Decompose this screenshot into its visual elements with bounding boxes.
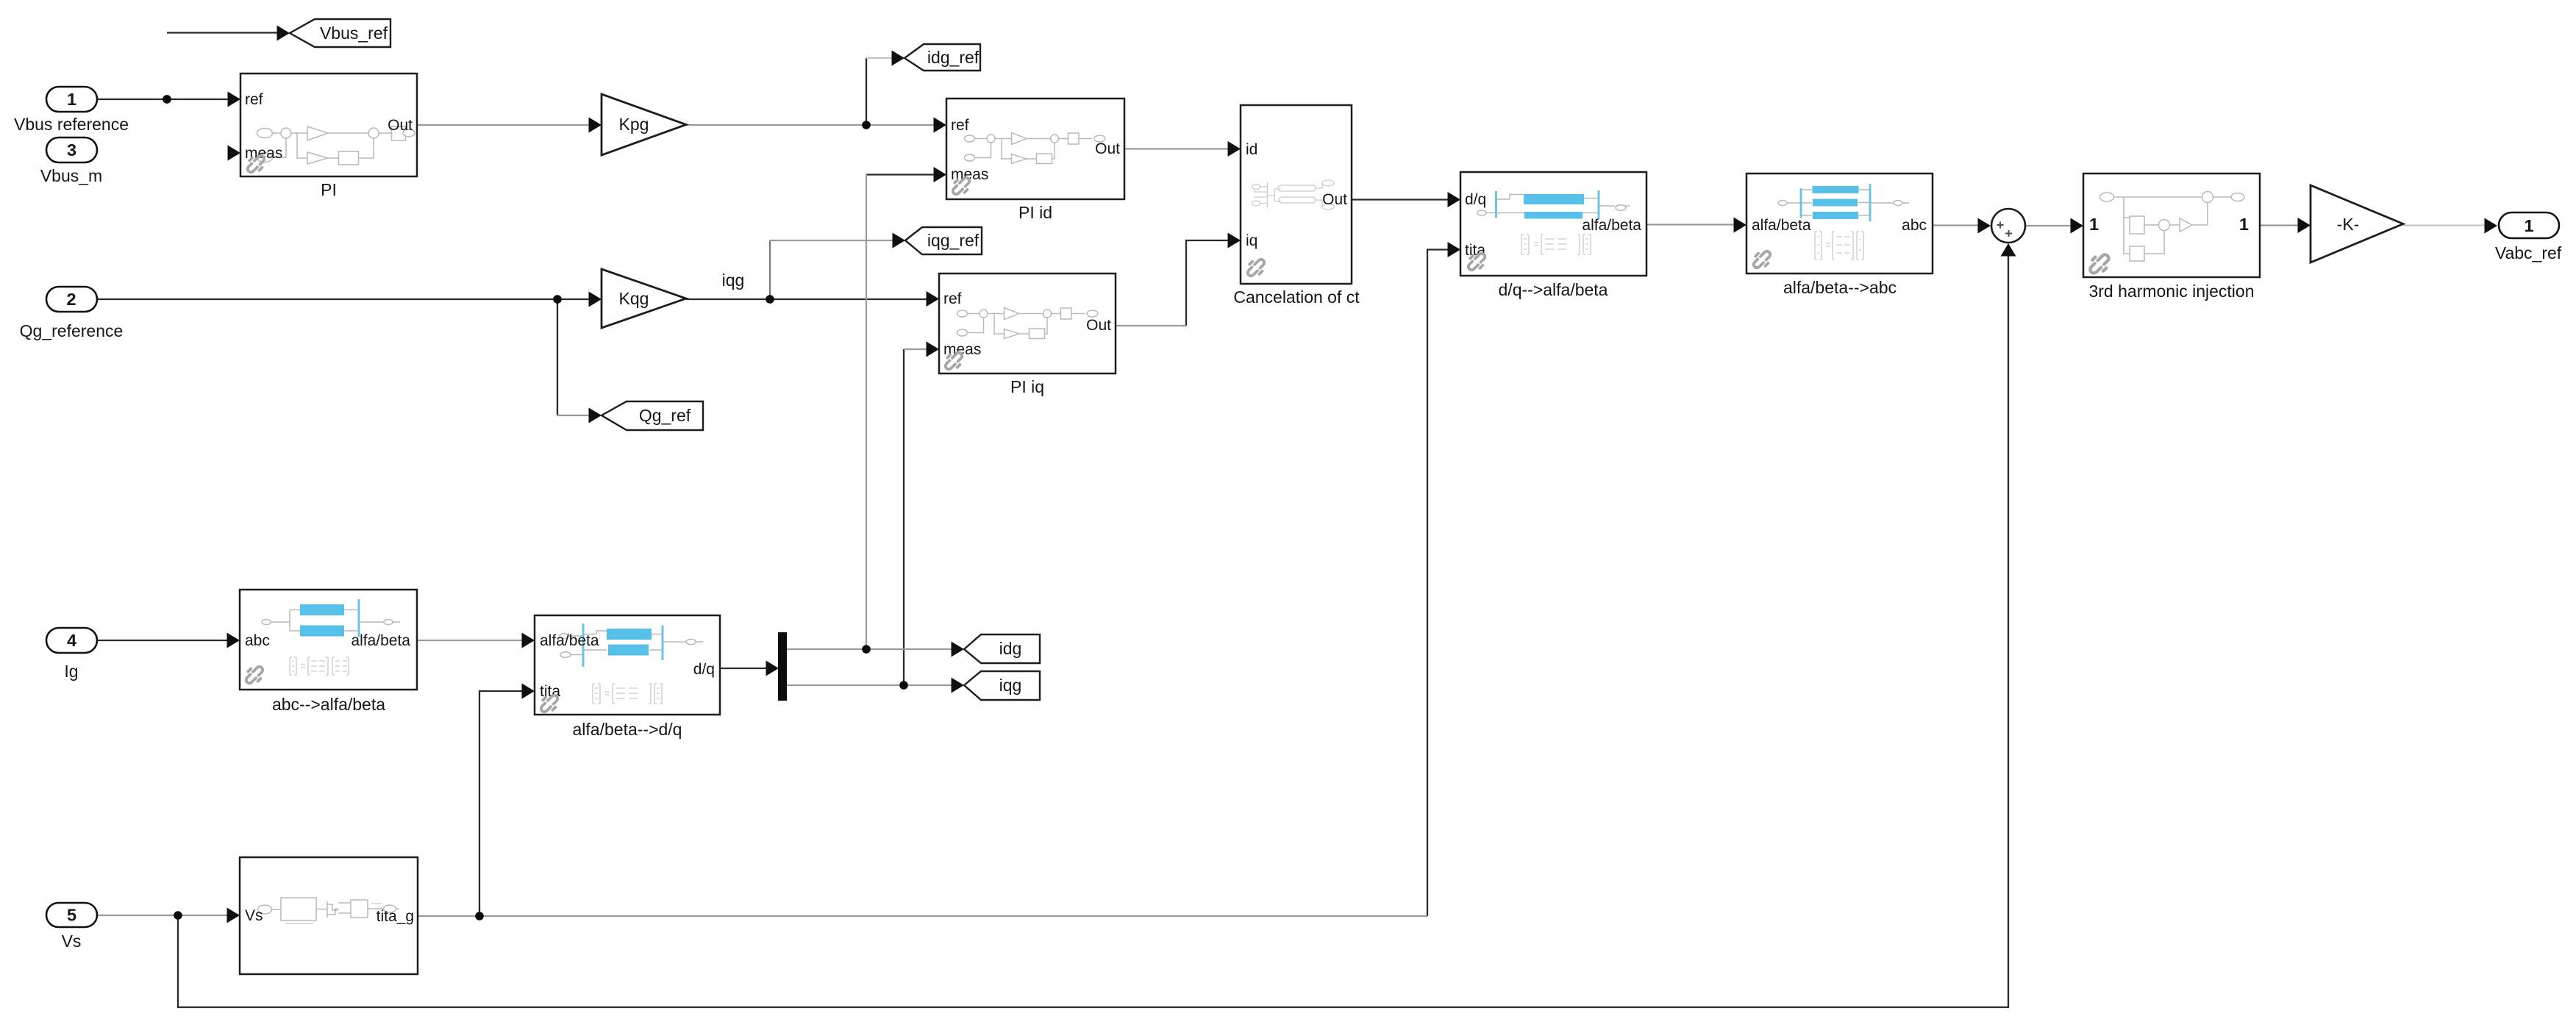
svg-text:alfa/beta-->abc: alfa/beta-->abc [1783,278,1897,297]
svg-text:ref: ref [951,117,969,134]
svg-text:3: 3 [67,140,76,160]
svg-text:4: 4 [67,631,76,650]
svg-text:1: 1 [2524,216,2533,235]
svg-text:d/q: d/q [1465,191,1486,208]
svg-text:PI: PI [321,180,337,199]
svg-text:tita: tita [1465,242,1485,259]
svg-text:abc: abc [1902,217,1927,234]
svg-text:PI id: PI id [1018,203,1052,222]
svg-text:alfa/beta-->d/q: alfa/beta-->d/q [573,720,682,739]
svg-text:Kqg: Kqg [619,289,649,308]
svg-text:iqg: iqg [722,271,745,290]
svg-text:1: 1 [67,90,76,109]
svg-text:alfa/beta: alfa/beta [540,632,599,649]
svg-text:Ig: Ig [64,662,78,681]
svg-text:ref: ref [943,290,962,307]
svg-text:iqg_ref: iqg_ref [927,231,980,250]
svg-text:3rd harmonic injection: 3rd harmonic injection [2088,282,2254,301]
svg-text:Vbus_ref: Vbus_ref [320,24,388,43]
svg-text:idg: idg [999,639,1022,658]
svg-text:Out: Out [1322,191,1347,208]
svg-text:iqg: iqg [999,676,1022,695]
svg-text:Qg_ref: Qg_ref [639,406,691,425]
svg-text:Cancelation of ct: Cancelation of ct [1233,287,1360,307]
svg-text:Vs: Vs [62,932,82,951]
svg-text:id: id [1246,141,1257,158]
svg-text:Out: Out [1095,140,1120,157]
svg-text:Out: Out [388,117,413,134]
svg-text:abc-->alfa/beta: abc-->alfa/beta [272,695,385,714]
svg-text:d/q-->alfa/beta: d/q-->alfa/beta [1499,280,1608,299]
svg-text:Qg_reference: Qg_reference [20,321,124,340]
svg-text:Out: Out [1086,317,1111,334]
svg-text:Vbus_m: Vbus_m [40,166,102,185]
svg-text:ref: ref [245,91,263,108]
svg-text:1: 1 [2239,215,2249,234]
svg-text:alfa/beta: alfa/beta [1752,217,1811,234]
svg-text:Vbus reference: Vbus reference [14,115,129,134]
svg-text:alfa/beta: alfa/beta [1582,217,1641,234]
svg-text:iq: iq [1246,232,1257,249]
svg-text:2: 2 [66,290,76,309]
svg-text:Vs: Vs [245,907,263,924]
svg-text:d/q: d/q [693,661,715,678]
svg-text:Kpg: Kpg [619,115,649,134]
svg-text:Vabc_ref: Vabc_ref [2495,243,2562,262]
svg-text:1: 1 [2089,215,2099,234]
svg-text:tita_g: tita_g [377,908,414,925]
svg-text:alfa/beta: alfa/beta [351,632,410,649]
svg-text:-K-: -K- [2337,215,2360,234]
svg-text:idg_ref: idg_ref [927,48,980,67]
svg-text:5: 5 [67,906,76,925]
svg-text:abc: abc [245,632,270,649]
svg-text:PI iq: PI iq [1010,377,1044,396]
